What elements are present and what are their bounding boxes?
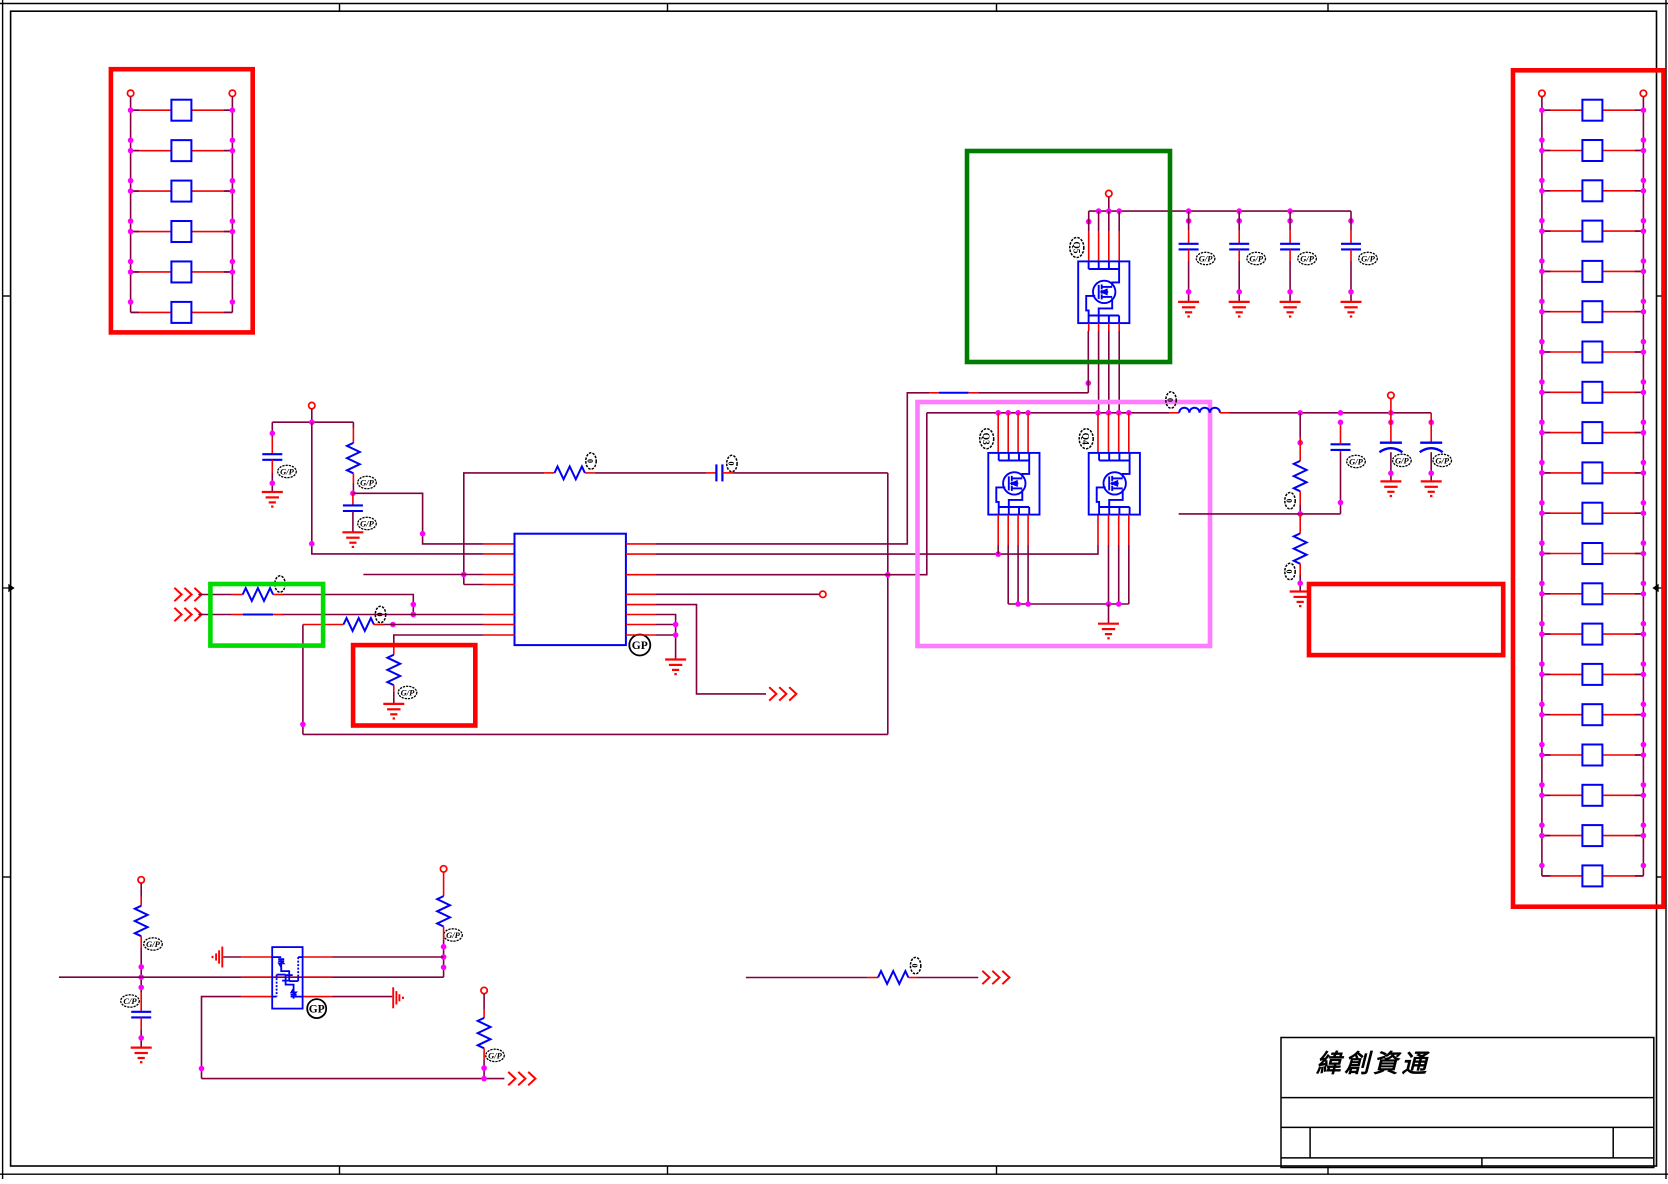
wire R11 lower red	[483, 1048, 485, 1060]
wire R9 lower red	[140, 936, 142, 948]
wire output bus	[1230, 412, 1432, 414]
resistor R7	[1294, 461, 1307, 491]
junctions R9 node	[138, 964, 144, 990]
svg-text:G/P: G/P	[280, 466, 295, 476]
label Q6 GP marking	[307, 999, 326, 1018]
off-page input arrows row 2	[174, 608, 201, 621]
CN2 right rail	[1642, 97, 1644, 876]
wire IC pin 4 red	[484, 584, 515, 586]
wire IC pin r1 red	[626, 543, 656, 545]
wire R8 red	[1299, 514, 1301, 534]
junction R7 upper	[1297, 440, 1303, 446]
wire pin r6 down	[656, 615, 676, 660]
wire R10 lower purple	[443, 940, 445, 977]
label R5 designator	[375, 606, 386, 622]
wire cap C4 purple	[1188, 211, 1190, 230]
CN1 pin 6 contact	[171, 302, 191, 323]
resistor R9	[135, 906, 148, 936]
wire R6 upper red	[393, 645, 395, 655]
wire Q5 drain bus	[1089, 210, 1351, 212]
label C8 value	[1347, 455, 1366, 467]
wire row3 purple	[384, 624, 484, 626]
wire C11 red	[140, 992, 142, 1012]
wire Q5 pin 3 purple	[1108, 211, 1110, 231]
junction C10 upper	[1428, 420, 1434, 426]
wire bottom run	[202, 1078, 505, 1080]
ground C6	[1280, 302, 1301, 317]
svg-text:G/P: G/P	[1435, 455, 1450, 465]
wire Q3 out red	[1017, 515, 1019, 545]
wire feedback left vertical	[302, 625, 304, 735]
ground R6	[383, 704, 404, 719]
wire mid net red a	[868, 977, 878, 979]
wire IC pin 3 red	[484, 574, 515, 576]
wire Q4 out red	[1118, 515, 1120, 545]
svg-text:Q4: Q4	[1080, 433, 1090, 445]
wire P2 down	[1108, 197, 1110, 211]
wire R7 purple	[1299, 413, 1301, 437]
svg-text:G/P: G/P	[401, 687, 416, 697]
CN2 pin 11 contact	[1582, 503, 1602, 524]
svg-text:G/P: G/P	[360, 518, 375, 528]
svg-text:緯創資通: 緯創資通	[1315, 1050, 1431, 1078]
svg-text:0: 0	[1166, 398, 1175, 402]
wire Q4 pin 2 red	[1108, 413, 1110, 453]
junction cap C7 gnd	[1348, 289, 1354, 295]
wire Q4 pin 1 red	[1097, 413, 1099, 453]
CN2 pin 18 contact	[1582, 785, 1602, 806]
CN2 pin row 19 wires	[1542, 835, 1644, 837]
label Q5 designator	[1070, 238, 1084, 258]
CN2 pin 8 contact	[1582, 382, 1602, 403]
capacitor C5	[1229, 244, 1249, 250]
CN1 left rail	[130, 97, 132, 313]
wire mid net purple a	[746, 977, 868, 979]
wire R11 red	[483, 1009, 485, 1018]
wire inductor left red	[1169, 412, 1179, 414]
wire Q6 pin1 red	[241, 956, 272, 958]
ground C9	[1380, 481, 1401, 496]
svg-text:GP: GP	[632, 640, 648, 652]
wire cap C7 red	[1350, 230, 1352, 244]
output terminal P3	[1388, 392, 1394, 398]
wire C11 lower red	[140, 1017, 142, 1030]
junction bus cap C6	[1287, 208, 1293, 214]
CN1 pin 3 contact	[171, 181, 191, 202]
wire row2 purple b	[283, 614, 484, 616]
power rail left (rotated)	[213, 947, 223, 968]
wire mid net purple b	[918, 977, 978, 979]
label C2 value	[358, 517, 377, 529]
wire Q6 pin1b purple	[333, 956, 444, 958]
label Q4 designator	[1079, 429, 1093, 449]
wire pin r4 to terminal	[656, 593, 820, 595]
junction cap C4 gnd	[1186, 289, 1192, 295]
transistor Q5 (power MOSFET)	[1078, 261, 1129, 323]
transistor Q6 (dual MOSFET)	[272, 947, 302, 1009]
wire Q4 gate pin red	[1097, 515, 1099, 545]
wire Q3 out purple	[1017, 545, 1019, 604]
CN2 pin 3 contact	[1582, 180, 1602, 201]
wire C1 upper purple	[271, 422, 273, 437]
ground C11	[131, 1048, 152, 1063]
CN2 pin 9 contact	[1582, 422, 1602, 443]
capacitor C9 (electrolytic)	[1379, 443, 1402, 453]
wire Q6 pin3 red	[241, 996, 272, 998]
wire R11 lower purple	[483, 1060, 485, 1079]
CN2 pin 17 contact	[1582, 745, 1602, 766]
wire cap C5 lower purple	[1238, 261, 1240, 302]
border zone ticks right	[1657, 296, 1667, 877]
power terminal P2	[1106, 190, 1112, 196]
capacitor C10 (electrolytic)	[1420, 443, 1443, 453]
CN2 pin row 16 wires	[1542, 714, 1644, 716]
svg-text:G/P: G/P	[488, 1050, 503, 1060]
transistor Q4 (power MOSFET)	[1089, 453, 1140, 515]
wire IC pin 3 stub	[363, 574, 483, 576]
wire C9 red	[1390, 413, 1392, 443]
junction cap C6 upper	[1287, 218, 1293, 224]
wire cap C4 lower purple	[1188, 261, 1190, 302]
wire C1 lower purple	[271, 473, 273, 492]
wire row2 purple a	[198, 614, 232, 616]
resistor R8	[1294, 533, 1307, 563]
off-page output arrows bottom	[508, 1072, 535, 1085]
wire Q4 pin 4 red	[1128, 413, 1130, 453]
label C9 value	[1393, 454, 1412, 466]
wire cap C7 lower red	[1350, 249, 1352, 261]
junction pin r8 gnd	[673, 632, 679, 638]
label C1 value	[278, 465, 297, 477]
wire R2 to C3	[595, 472, 707, 474]
CN2 pin row 12 wires	[1542, 553, 1644, 555]
capacitor C11	[131, 1012, 151, 1018]
wire C10 red	[1430, 413, 1432, 443]
wire feedback top run	[464, 473, 544, 585]
CN2 pin 4 contact	[1582, 221, 1602, 242]
CN1 junction dots	[128, 107, 235, 304]
label C3 designator	[726, 455, 737, 471]
junction Q5 col1 upper	[1086, 219, 1092, 225]
border arrow left	[3, 585, 14, 591]
highlight box red (feedback divider)	[1309, 584, 1503, 655]
wire source bus	[1008, 603, 1129, 605]
wire IC pin 4 purple	[464, 584, 484, 586]
CN2 pin row 14 wires	[1542, 633, 1644, 635]
capacitor C6	[1280, 244, 1300, 250]
wire cap C6 lower purple	[1289, 261, 1291, 302]
junction C1 lower	[270, 480, 276, 486]
wire Q5 out pin 4 red	[1118, 323, 1120, 331]
junction C8 upper	[1338, 420, 1344, 426]
wire top bus	[272, 421, 353, 423]
wire P3 stub	[1390, 399, 1392, 413]
junction bus cap C5	[1236, 208, 1242, 214]
wire C1 lower red	[271, 460, 273, 473]
resistor R6	[387, 655, 400, 685]
ground C10	[1421, 481, 1442, 496]
ground C7	[1341, 302, 1362, 317]
wire Q5 pin 2 red	[1098, 231, 1100, 261]
wire IC pin r7 red	[626, 624, 656, 626]
power rail right (rotated)	[393, 987, 403, 1008]
label L1 designator	[1166, 392, 1177, 408]
junction feedback-pin3	[885, 572, 891, 578]
wire Q5 out pin 3 red	[1108, 323, 1110, 331]
CN2 pin 20 contact	[1582, 865, 1602, 886]
resistor R4 zero-ohm link	[243, 614, 273, 616]
resistor R5	[344, 618, 374, 631]
wire P1 down	[311, 409, 313, 422]
wire Q5 out pin 1 red	[1088, 323, 1090, 331]
wire IC pin r5 red	[626, 604, 656, 606]
junction R1-C2 node	[350, 491, 356, 497]
wire C9 lower	[1390, 452, 1392, 481]
wire pin r3 to top bus	[656, 413, 927, 575]
junction divider node	[1297, 511, 1303, 517]
wire Q3 pin 4 red	[1027, 413, 1029, 453]
svg-text:G/P: G/P	[1249, 253, 1264, 263]
wire IC pin r3 red	[626, 574, 656, 576]
wire cap C6 purple	[1289, 211, 1291, 230]
svg-text:GP: GP	[309, 1004, 325, 1016]
junction cap C6 gnd	[1287, 289, 1293, 295]
ground C5	[1229, 302, 1250, 317]
wire R11 purple	[483, 994, 485, 1009]
label R8 designator	[1285, 563, 1296, 579]
wire aux bus	[59, 976, 444, 978]
label R3 designator	[275, 576, 286, 592]
IC U1 body	[515, 534, 626, 645]
svg-text:G/P: G/P	[1349, 456, 1364, 466]
terminal P5	[440, 866, 446, 872]
wire R6 lower red	[393, 685, 395, 692]
CN1 pin 4 contact	[171, 221, 191, 242]
CN1 terminal left	[127, 90, 133, 96]
wire cap C6 lower red	[1289, 249, 1291, 261]
wire cap C5 red	[1238, 230, 1240, 244]
wire C3 left red	[706, 472, 716, 474]
junction Q3 gate column	[995, 551, 1001, 557]
label C11 value	[121, 995, 140, 1007]
junction Q5 column	[1086, 380, 1092, 386]
CN2 terminal left	[1539, 90, 1545, 96]
wire IC pin r2 red	[626, 553, 656, 555]
wire IC pin 6 red	[484, 624, 515, 626]
svg-text:G/P: G/P	[360, 477, 375, 487]
junction cap C7 upper	[1348, 218, 1354, 224]
svg-text:G/P: G/P	[446, 930, 461, 940]
label R1 value	[358, 476, 377, 488]
wire Q3 pin 2 red	[1007, 413, 1009, 453]
wire R2 left red	[544, 472, 554, 474]
wire R1 node to IC pin 1	[353, 493, 484, 544]
CN2 pin 15 contact	[1582, 664, 1602, 685]
label R7 designator	[1285, 493, 1296, 509]
resistor R3	[243, 588, 273, 601]
CN2 pin row 20 wires	[1542, 875, 1644, 877]
wire R7 lower purple	[1299, 505, 1301, 514]
CN2 pin row 10 wires	[1542, 472, 1644, 474]
junction C8 lower	[1338, 500, 1344, 506]
label R6 value	[398, 686, 417, 698]
wire Q5 out pin 2 red	[1098, 323, 1100, 331]
border zone ticks bottom	[340, 1166, 1329, 1174]
CN2 pin row 7 wires	[1542, 351, 1644, 353]
wire Q3 out red	[1007, 515, 1009, 545]
CN2 pin row 8 wires	[1542, 391, 1644, 393]
wire cap C6 red	[1289, 230, 1291, 244]
svg-text:Q3: Q3	[980, 433, 990, 445]
wire row1 purple a	[198, 594, 232, 596]
CN2 pin row 3 wires	[1542, 190, 1644, 192]
wire Q4 pin 3 red	[1118, 413, 1120, 453]
wire C2 lower	[352, 511, 354, 532]
CN2 pin row 6 wires	[1542, 311, 1644, 313]
CN1 pin row 2 wires	[131, 150, 233, 152]
junction C9 upper	[1388, 420, 1394, 426]
wire Q3 out purple	[1007, 545, 1009, 604]
junction cap C5 gnd	[1236, 289, 1242, 295]
CN2 pin 14 contact	[1582, 624, 1602, 645]
wire cap C5 lower red	[1238, 249, 1240, 261]
wire Q3 out1 purple	[997, 545, 999, 554]
CN2 pin 6 contact	[1582, 301, 1602, 322]
wire R6 lower purple	[393, 692, 395, 704]
connector CN1 outline box	[111, 69, 253, 332]
wire Q5 out col1 purple	[1087, 331, 1089, 393]
label Q3 designator	[980, 429, 994, 449]
wire R7 red	[1299, 437, 1301, 461]
junction row1-row2 upper	[411, 602, 417, 608]
label C5 value	[1247, 252, 1266, 264]
junctions top bus Q3	[995, 410, 1030, 416]
junction feedback pin3 cross	[461, 572, 467, 578]
wire Q5 out col3 purple	[1108, 331, 1110, 413]
CN2 pin row 11 wires	[1542, 512, 1644, 514]
wire P1 to IC pin 2	[312, 422, 484, 554]
junction R8 gnd	[1297, 580, 1303, 586]
junction C9 gnd	[1388, 470, 1394, 476]
CN1 pin 2 contact	[171, 140, 191, 161]
capacitor C4	[1179, 244, 1199, 250]
wire C10 lower	[1430, 452, 1432, 481]
CN2 pin row 5 wires	[1542, 270, 1644, 272]
wire Q6 pin1b red	[303, 956, 333, 958]
CN1 terminal right	[229, 90, 235, 96]
wire source bus to gnd	[1108, 604, 1110, 624]
wire Q3 pin 3 red	[1017, 413, 1019, 453]
wire feedback right vertical	[887, 473, 889, 735]
CN1 pin row 5 wires	[131, 271, 233, 273]
wire Q5 pin 3 red	[1108, 231, 1110, 261]
wire IC pin r6 red	[626, 614, 656, 616]
wire Q6 pin2b red	[303, 976, 333, 978]
wire row2 red b	[273, 614, 283, 616]
svg-text:G/P: G/P	[1395, 455, 1410, 465]
wire R8 lower purple	[1299, 575, 1301, 592]
junctions Q5 bus	[1096, 208, 1122, 214]
junction cap C4 upper	[1186, 218, 1192, 224]
junctions output bus	[1297, 410, 1393, 416]
wire IC pin 1 red	[484, 543, 515, 545]
wire C1 upper red	[271, 437, 273, 454]
wire pin r1 to gate bus	[656, 393, 929, 544]
wire gate link blue	[939, 392, 969, 394]
wire IC pin 2 red	[484, 553, 515, 555]
connector CN2 outline box	[1513, 70, 1664, 906]
svg-text:Q5: Q5	[1070, 241, 1080, 253]
svg-text:G/P: G/P	[1361, 253, 1376, 263]
resistor R11	[478, 1018, 491, 1048]
capacitor C7	[1341, 244, 1361, 250]
wire C8 red up	[1340, 450, 1342, 453]
wire gate link red a	[929, 392, 939, 394]
wire row3 red b	[374, 624, 384, 626]
wire Q5 pin 4 purple	[1118, 211, 1120, 231]
resistor R1	[347, 443, 360, 473]
wire C2 upper red	[352, 493, 354, 505]
junction row1-row2	[411, 612, 417, 618]
title block outline	[1281, 1038, 1654, 1168]
svg-text:0: 0	[1285, 499, 1294, 503]
junction bus cap C4	[1186, 208, 1192, 214]
wire R2 right red	[585, 472, 595, 474]
CN2 pin 1 contact	[1582, 100, 1602, 121]
capacitor C1	[262, 454, 282, 460]
label C4 value	[1196, 252, 1215, 264]
label R11 value	[486, 1049, 505, 1061]
resistor R2	[555, 467, 585, 480]
wire gate link red b	[969, 392, 979, 394]
CN1 pin row 4 wires	[131, 231, 233, 233]
wire Q5 pin 1 red	[1088, 231, 1090, 261]
wire R8 lower red	[1299, 564, 1301, 575]
svg-text:0: 0	[586, 459, 595, 463]
wire pin r2 to Q3/Q4 gates	[656, 545, 1098, 554]
junction above feedback corner	[300, 722, 306, 728]
label C10 value	[1433, 454, 1452, 466]
CN2 pin row 1 wires	[1542, 109, 1644, 111]
label R12 designator	[910, 957, 921, 973]
junction above pin2 corner	[309, 541, 315, 547]
CN2 pin 12 contact	[1582, 543, 1602, 564]
wire IC pin 5 red	[484, 614, 515, 616]
wire Q6 pin2 red	[241, 976, 272, 978]
highlight box red (pulldown)	[353, 645, 475, 725]
junctions top bus Q4	[1095, 410, 1131, 416]
CN1 pin 5 contact	[171, 261, 191, 282]
svg-text:G/P: G/P	[1300, 253, 1315, 263]
wire cap C7 purple	[1350, 211, 1352, 230]
wire Q3 out red	[1027, 515, 1029, 545]
wire Q5 out col2 purple	[1098, 331, 1100, 413]
wire Q4 out red	[1128, 515, 1130, 545]
wire Q6 pin3b purple	[333, 996, 393, 998]
junction cap C5 upper	[1236, 218, 1242, 224]
wire P4 purple	[140, 883, 142, 896]
wire R10 lower red	[443, 927, 445, 941]
svg-text:0: 0	[375, 613, 384, 617]
svg-text:0: 0	[1285, 570, 1294, 574]
transistor Q3 (power MOSFET)	[988, 453, 1039, 515]
terminal P6	[481, 987, 487, 993]
wire cap C5 purple	[1238, 211, 1240, 230]
wire red box node to IC pin 7	[394, 635, 484, 645]
wire Q5 pin 1 purple	[1088, 211, 1090, 231]
CN2 pin row 15 wires	[1542, 673, 1644, 675]
ground switching stage	[1098, 624, 1119, 639]
